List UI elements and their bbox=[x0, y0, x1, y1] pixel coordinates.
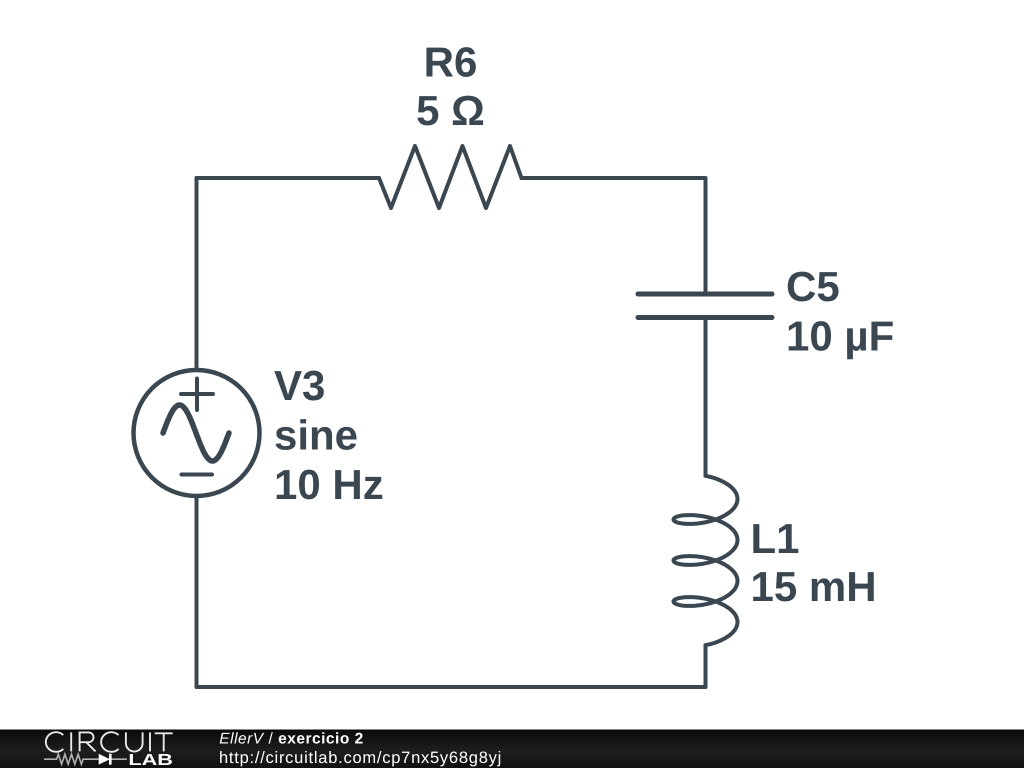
svg-text:C5: C5 bbox=[786, 263, 840, 310]
logo diode triangle bbox=[99, 754, 110, 765]
svg-text:5 Ω: 5 Ω bbox=[416, 87, 485, 134]
V3 sine wave bbox=[163, 405, 229, 461]
voltage source V3 circle bbox=[134, 370, 260, 496]
svg-text:10 µF: 10 µF bbox=[786, 313, 894, 360]
V3 minus sign bbox=[182, 473, 213, 477]
wire: resistor to top-right corner, down to capacitor bbox=[522, 178, 706, 291]
svg-text:V3: V3 bbox=[274, 362, 325, 409]
svg-text:15 mH: 15 mH bbox=[751, 563, 877, 610]
wire: bottom horizontal bbox=[197, 685, 706, 689]
V3 plus sign bbox=[181, 379, 213, 411]
svg-text:LAB: LAB bbox=[128, 752, 173, 768]
svg-text:10 Hz: 10 Hz bbox=[274, 461, 384, 508]
wire: top-left horizontal to resistor bbox=[197, 176, 380, 180]
svg-text:http://circuitlab.com/cp7nx5y6: http://circuitlab.com/cp7nx5y68g8yj bbox=[219, 749, 502, 767]
wire: left vertical (source to top-left corner) bbox=[195, 178, 199, 370]
wire: bottom-left vertical up to source bbox=[195, 496, 199, 687]
logo CIRCUIT bbox=[46, 732, 173, 752]
logo diode cathode bar bbox=[109, 754, 112, 765]
svg-text:L1: L1 bbox=[751, 515, 800, 562]
capacitor C5 bbox=[638, 294, 772, 318]
wire: capacitor to inductor bbox=[704, 320, 708, 476]
svg-text:R6: R6 bbox=[424, 39, 478, 86]
wire: inductor to bottom-right corner bbox=[704, 645, 708, 687]
svg-text:sine: sine bbox=[274, 412, 358, 459]
footer bar bbox=[0, 730, 1024, 768]
logo circuit symbol (resistor + diode) bbox=[44, 754, 127, 764]
svg-text:EllerV / exercicio 2: EllerV / exercicio 2 bbox=[219, 731, 363, 748]
resistor R6 bbox=[379, 146, 522, 208]
inductor L1 bbox=[674, 476, 738, 645]
